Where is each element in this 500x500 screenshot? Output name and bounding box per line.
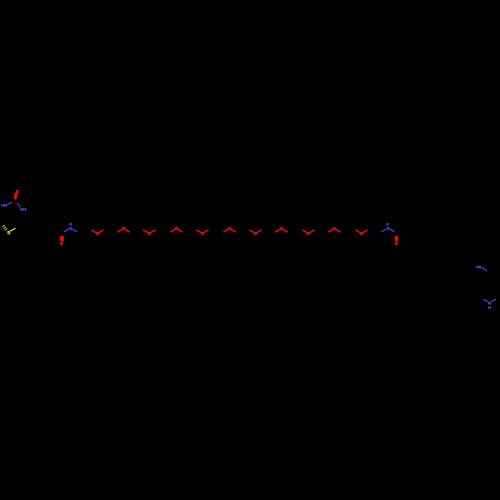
secondary amine nitrogen N6 label [489, 302, 491, 305]
ether oxygen O9 (PEG unit 7) [250, 230, 261, 235]
bond N5-CH stub (blue half) [484, 269, 487, 271]
bond CH2-N4 stub (blue half) [382, 229, 386, 231]
bond C-O left stub [171, 230, 175, 232]
bond O-C right stub [363, 230, 367, 232]
biotin sulfur S label [8, 232, 10, 234]
primary amine N5 label H2N [476, 266, 484, 269]
bond N2-CH2 stub (blue half) [73, 229, 77, 231]
bond C-O left stub [276, 230, 280, 232]
bond N1-C2 (blue half) [8, 202, 12, 204]
O label [254, 232, 257, 235]
amide 2 oxygen O14 label [395, 242, 398, 246]
bond C-O left stub [356, 230, 360, 232]
amide 2 C=O double bond (red half) [395, 236, 398, 241]
amide 1 C=O double bond (red half) [60, 236, 64, 241]
biotin N1 label HN [2, 204, 7, 207]
bond O-C right stub [178, 230, 182, 232]
ether oxygen O8 (PEG unit 6) [224, 227, 235, 232]
ether oxygen O4 (PEG unit 2) [118, 227, 129, 232]
ether oxygen O12 (PEG unit 10) [329, 227, 340, 232]
biotin ureido C=O double bond (red half) [14, 193, 18, 200]
O label [228, 227, 231, 230]
O label [201, 232, 204, 235]
ether oxygen O6 (PEG unit 4) [171, 227, 182, 232]
bond O-C right stub [125, 230, 129, 232]
ether oxygen O5 (PEG unit 3) [144, 230, 155, 235]
bond C-O left stub [92, 230, 96, 232]
O label [148, 232, 151, 235]
bond O-C right stub [99, 230, 103, 232]
bond N2-C(=O) stub (blue half) [65, 229, 69, 231]
O label [122, 227, 125, 230]
bond C-O left stub [250, 230, 254, 232]
bond O-C right stub [151, 230, 155, 232]
bond CH2-N6 stub (blue half) [484, 300, 488, 302]
O label [280, 227, 283, 230]
bond C-O left stub [197, 230, 201, 232]
bond O-C right stub [257, 230, 261, 232]
amide 1 nitrogen N2 label [70, 227, 72, 230]
biotin ureido oxygen O1 label [16, 190, 19, 193]
bond C-O left stub [118, 230, 122, 232]
amide 1 oxygen O2 label [60, 242, 63, 246]
O label [307, 232, 310, 235]
O label [333, 227, 336, 230]
O label [96, 232, 99, 235]
bond S-C2a (yellow half) [11, 229, 16, 232]
bond O-C right stub [204, 230, 208, 232]
bond N6-CH3 stub (blue half) [492, 299, 496, 301]
amide 1 N-H hydrogen label [70, 223, 72, 226]
amide 2 nitrogen N4 label [387, 227, 389, 230]
ether oxygen O13 (PEG unit 11) [356, 230, 367, 235]
bond C-O left stub [144, 230, 148, 232]
bond C-O left stub [224, 230, 228, 232]
biotin N3 label NH [21, 208, 26, 211]
hashed wedge bond C2-N3 (blue half) [17, 203, 21, 207]
bond O-C right stub [232, 230, 236, 232]
secondary amine N6 hydrogen label [489, 306, 491, 309]
bond N4-C(=O) stub (blue half) [390, 229, 394, 231]
bond O-C right stub [283, 230, 287, 232]
amide 2 N-H hydrogen label [386, 223, 388, 226]
hashed bond C6-S (yellow half) [3, 226, 7, 231]
bond C-O left stub [329, 230, 333, 232]
ether oxygen O7 (PEG unit 5) [197, 230, 208, 235]
ether oxygen O10 (PEG unit 8) [276, 227, 287, 232]
ether oxygen O3 (PEG unit 1) [92, 230, 103, 235]
bond C-O left stub [303, 230, 307, 232]
bond O-C right stub [310, 230, 314, 232]
bond O-C right stub [336, 230, 340, 232]
O label [175, 227, 178, 230]
O label [360, 232, 363, 235]
ether oxygen O11 (PEG unit 9) [303, 230, 314, 235]
